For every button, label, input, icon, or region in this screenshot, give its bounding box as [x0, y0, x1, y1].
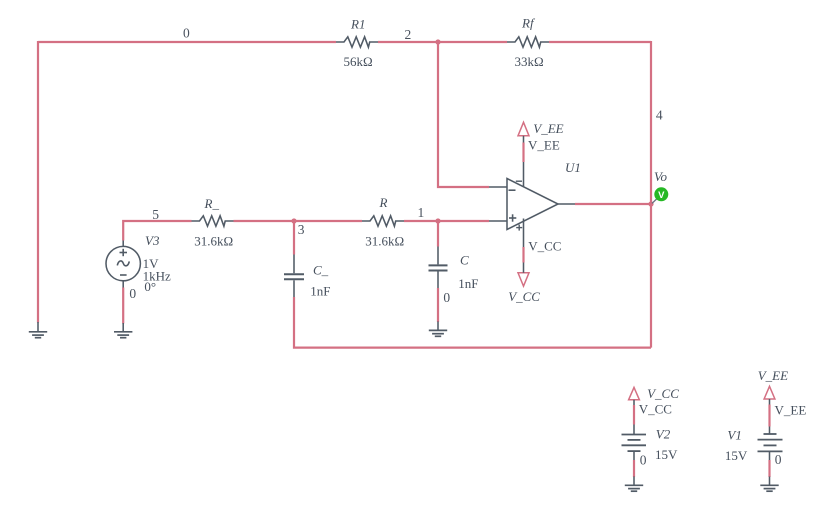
- wire C_ bottom to net 4 bottom run: [294, 297, 651, 348]
- svg-text:3: 3: [298, 222, 305, 237]
- node 1 label: [418, 205, 425, 220]
- node 3 label: [298, 222, 305, 237]
- wire net 4 right rail: [650, 41, 652, 348]
- junction node 1: [435, 218, 440, 223]
- value 31.6kΩ (R_): [194, 234, 233, 249]
- label V_CC (connector name): [508, 289, 540, 304]
- wire net 0 left rail: [37, 41, 39, 323]
- dc source V1: [758, 427, 783, 461]
- power connector V_EE arrow (op-amp): [518, 122, 529, 136]
- resistor R1: [336, 37, 378, 47]
- svg-text:0°: 0°: [144, 279, 156, 294]
- svg-text:0: 0: [443, 290, 450, 305]
- label R_: [204, 196, 220, 211]
- junction node 4 (output): [648, 201, 653, 206]
- junction node 2: [435, 39, 440, 44]
- V_EE connector stub: [523, 136, 525, 143]
- value 56kΩ: [344, 54, 373, 69]
- wire net 3 horizontal: [234, 220, 363, 222]
- wire net 2 horizontal: [378, 41, 507, 43]
- op-amp U1 non-inverting input marker: [509, 214, 516, 221]
- power connector V_CC arrow (V2): [629, 387, 640, 399]
- node 0 label: [183, 26, 190, 41]
- svg-text:C_: C_: [313, 262, 329, 277]
- wire net 1 drop to C: [437, 221, 439, 247]
- svg-text:V: V: [658, 190, 665, 201]
- label V_CC (net): [528, 239, 561, 254]
- label V_EE (net): [528, 137, 560, 152]
- power connector V_CC arrow (op-amp): [518, 273, 529, 286]
- svg-text:Rf: Rf: [521, 16, 536, 31]
- svg-text:R_: R_: [204, 196, 220, 211]
- label V2: [656, 427, 671, 442]
- op-amp U1 positive supply pin marker: [516, 225, 522, 231]
- label V_CC (net, V2): [639, 402, 672, 417]
- resistor Rf: [507, 37, 549, 47]
- value 1nF (C): [458, 276, 478, 291]
- node 4 label: [656, 108, 663, 123]
- wire net 2 drop to inverting input: [438, 42, 489, 187]
- wire V3 to ground: [122, 288, 124, 324]
- node 0 label at C ground: [443, 290, 450, 305]
- ground at V1: [760, 477, 778, 492]
- node 5 label: [152, 207, 159, 222]
- label V1: [727, 428, 741, 443]
- node 0 label at V1: [775, 452, 782, 467]
- node 2 label: [405, 27, 412, 42]
- svg-text:V2: V2: [656, 427, 671, 442]
- wire net 1 horizontal: [404, 220, 489, 222]
- svg-text:1nF: 1nF: [458, 276, 478, 291]
- probe Vo (voltage probe): [654, 187, 668, 201]
- wire net 0 top horizontal: [38, 41, 336, 43]
- svg-text:33kΩ: 33kΩ: [515, 54, 544, 69]
- svg-text:15V: 15V: [725, 448, 748, 463]
- value 0°: [144, 279, 156, 294]
- svg-text:V1: V1: [727, 428, 741, 443]
- wire V2 top: [633, 405, 635, 425]
- svg-text:31.6kΩ: 31.6kΩ: [365, 234, 404, 249]
- wire net 3 drop to C_: [293, 221, 295, 255]
- op-amp U1 negative supply pin marker: [516, 180, 522, 182]
- value 15V (V2): [655, 447, 678, 462]
- wire V_EE pin: [522, 143, 524, 163]
- label U1: [565, 160, 581, 175]
- svg-text:R: R: [379, 195, 388, 210]
- label C: [460, 253, 469, 268]
- svg-text:V_CC: V_CC: [508, 289, 540, 304]
- resistor R: [362, 216, 404, 226]
- svg-text:4: 4: [656, 108, 663, 123]
- label Vo: [654, 169, 668, 184]
- svg-text:56kΩ: 56kΩ: [344, 54, 373, 69]
- op-amp U1: [489, 162, 575, 247]
- svg-text:1: 1: [418, 205, 425, 220]
- svg-text:V_EE: V_EE: [533, 121, 563, 136]
- label V_EE (net, V1): [775, 403, 807, 418]
- dc source V2: [622, 425, 647, 461]
- svg-text:V_CC: V_CC: [528, 239, 561, 254]
- svg-text:V_EE: V_EE: [528, 137, 560, 152]
- svg-text:C: C: [460, 253, 469, 268]
- label R1: [350, 17, 365, 32]
- svg-text:U1: U1: [565, 160, 581, 175]
- svg-text:5: 5: [152, 207, 159, 222]
- label R: [379, 195, 388, 210]
- op-amp U1 inverting input marker: [509, 189, 516, 191]
- resistor R_: [192, 216, 234, 226]
- svg-text:V_CC: V_CC: [639, 402, 672, 417]
- value 1kHz: [143, 269, 171, 284]
- svg-text:15V: 15V: [655, 447, 678, 462]
- wire V1 top: [768, 405, 770, 427]
- svg-text:0: 0: [129, 286, 136, 301]
- voltage source V3: [106, 240, 140, 288]
- svg-text:31.6kΩ: 31.6kΩ: [194, 234, 233, 249]
- capacitor C: [429, 246, 448, 289]
- value 1nF (C_): [310, 283, 330, 298]
- wire V_CC pin: [522, 247, 524, 263]
- wire net 4 top horizontal: [549, 41, 651, 43]
- svg-text:V_EE: V_EE: [775, 403, 807, 418]
- svg-text:Vo: Vo: [654, 169, 668, 184]
- junction node 3: [291, 218, 296, 223]
- svg-text:V3: V3: [145, 233, 160, 248]
- capacitor C_: [284, 254, 304, 298]
- label Rf: [521, 16, 536, 31]
- ground at V3: [114, 323, 132, 338]
- svg-text:0: 0: [775, 452, 782, 467]
- svg-text:V_EE: V_EE: [758, 368, 788, 383]
- ground at V2: [625, 477, 643, 492]
- V_CC connector stub (V2): [633, 400, 635, 405]
- label V3: [145, 233, 160, 248]
- V_CC connector stub: [523, 263, 525, 273]
- label V_EE (connector name, V1): [758, 368, 788, 383]
- svg-text:0: 0: [640, 452, 647, 467]
- wire C bottom to ground: [437, 288, 439, 322]
- value 15V (V1): [725, 448, 748, 463]
- value 31.6kΩ (R): [365, 234, 404, 249]
- power connector V_EE arrow (V1): [764, 386, 775, 399]
- wire net 5 from V3: [123, 221, 191, 241]
- wire op-amp output to net 4: [575, 203, 651, 205]
- value 1V: [143, 256, 160, 271]
- node 0 label at V3 ground: [129, 286, 136, 301]
- ground (net 0) bottom-left: [29, 322, 47, 338]
- svg-text:0: 0: [183, 26, 190, 41]
- label V_CC (connector name, V2): [647, 386, 679, 401]
- value 33kΩ: [515, 54, 544, 69]
- wire V1 bottom to ground: [768, 460, 770, 477]
- svg-text:R1: R1: [350, 17, 365, 32]
- svg-text:2: 2: [405, 27, 412, 42]
- wire V2 bottom to ground: [633, 460, 635, 477]
- svg-text:1nF: 1nF: [310, 283, 330, 298]
- label C_: [313, 262, 329, 277]
- V_EE connector stub (V1): [769, 399, 771, 405]
- probe pointer line: [652, 199, 657, 204]
- svg-text:V_CC: V_CC: [647, 386, 679, 401]
- label V_EE (connector name): [533, 121, 563, 136]
- ground at C: [429, 322, 447, 337]
- node 0 label at V2: [640, 452, 647, 467]
